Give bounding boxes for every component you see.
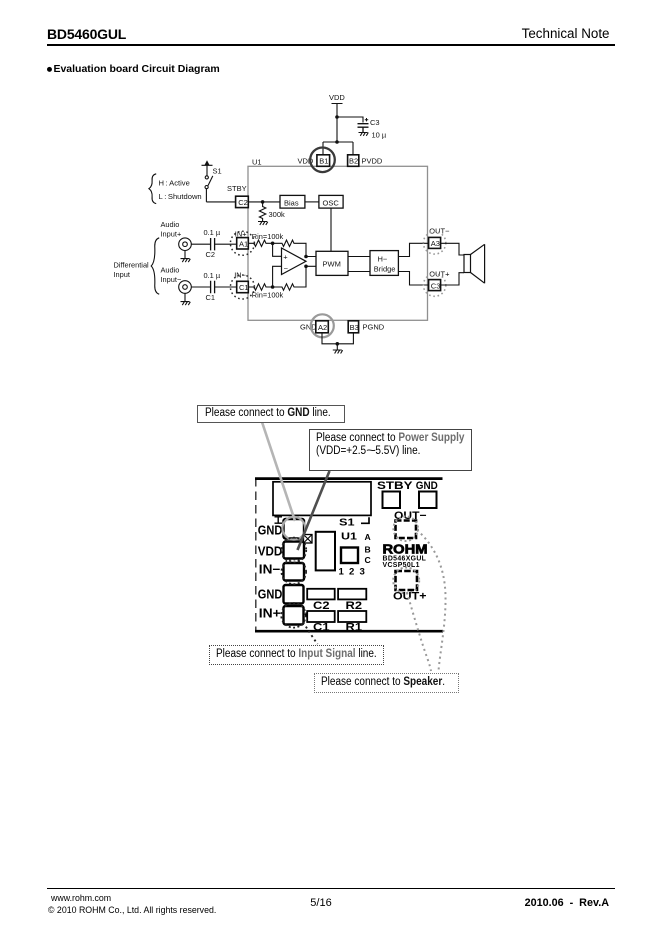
svg-text:U1: U1 [252, 158, 262, 167]
svg-text:Input+: Input+ [161, 230, 182, 239]
svg-text:IN−: IN− [259, 563, 281, 577]
svg-text:GND: GND [258, 588, 283, 602]
svg-text:0.1 µ: 0.1 µ [204, 228, 221, 237]
svg-text:B1: B1 [319, 157, 328, 166]
svg-text:B2: B2 [349, 157, 358, 166]
svg-text:PGND: PGND [363, 323, 385, 332]
svg-text:C: C [365, 555, 371, 565]
svg-text:OUT−: OUT− [429, 227, 450, 236]
svg-text:C1: C1 [313, 621, 330, 633]
svg-text:GND: GND [258, 523, 283, 537]
svg-text:L : Shutdown: L : Shutdown [159, 192, 202, 201]
svg-text:Audio: Audio [161, 220, 180, 229]
svg-text:A2: A2 [318, 323, 327, 332]
svg-text:Rin=100k: Rin=100k [252, 290, 284, 299]
svg-text:H : Active: H : Active [159, 178, 190, 187]
svg-text:A: A [365, 532, 371, 542]
svg-text:ROHM: ROHM [383, 542, 428, 556]
svg-text:Bridge: Bridge [374, 264, 396, 273]
svg-text:OUT+: OUT+ [393, 591, 427, 603]
svg-text:STBY: STBY [377, 480, 413, 492]
svg-text:B: B [365, 544, 371, 554]
svg-text:−: − [284, 264, 289, 273]
svg-text:Bias: Bias [284, 198, 299, 207]
svg-text:Audio: Audio [161, 265, 180, 274]
svg-text:1: 1 [339, 567, 345, 578]
svg-text:C2: C2 [206, 250, 215, 259]
svg-text:U1: U1 [341, 530, 357, 542]
svg-text:VDD: VDD [329, 93, 345, 102]
svg-text:H−: H− [378, 254, 388, 263]
svg-text:+: + [304, 610, 309, 619]
svg-text:B3: B3 [350, 323, 359, 332]
svg-text:C1: C1 [206, 293, 215, 302]
svg-text:C2: C2 [238, 198, 248, 207]
svg-text:S1: S1 [213, 167, 222, 176]
svg-text:A3: A3 [431, 239, 440, 248]
svg-text:C1: C1 [239, 283, 249, 292]
svg-text:10 µ: 10 µ [372, 131, 387, 140]
svg-text:2: 2 [349, 567, 354, 578]
svg-text:0.1 µ: 0.1 µ [204, 271, 221, 280]
svg-text:Input: Input [114, 270, 130, 279]
svg-text:PWM: PWM [323, 259, 341, 268]
svg-text:S1: S1 [339, 517, 355, 529]
svg-text:Differential: Differential [114, 260, 150, 269]
svg-text:+: + [283, 252, 288, 261]
svg-text:IN+: IN+ [259, 607, 281, 621]
svg-text:VDD: VDD [258, 544, 283, 558]
svg-text:OSC: OSC [323, 198, 340, 207]
svg-text:A1: A1 [239, 239, 248, 248]
svg-text:PVDD: PVDD [362, 157, 383, 166]
svg-text:IN−: IN− [234, 271, 246, 280]
svg-text:R1: R1 [346, 621, 363, 633]
svg-text:300k: 300k [269, 210, 286, 219]
svg-text:3: 3 [360, 567, 365, 578]
svg-text:GND: GND [300, 323, 317, 332]
svg-text:C3: C3 [370, 118, 380, 127]
svg-text:GND: GND [416, 480, 438, 492]
svg-text:Rin=100k: Rin=100k [252, 232, 284, 241]
svg-text:C3: C3 [431, 281, 441, 290]
svg-text:STBY: STBY [227, 184, 247, 193]
svg-text:Input−: Input− [161, 275, 182, 284]
svg-text:OUT+: OUT+ [429, 269, 450, 278]
